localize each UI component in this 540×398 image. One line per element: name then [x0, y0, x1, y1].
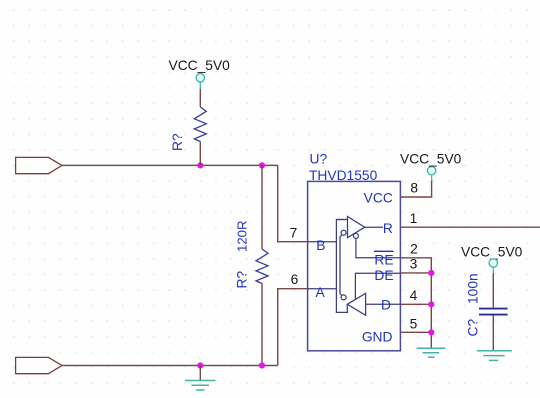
enable bubble on driver	[341, 295, 346, 300]
wire resistor R? to top net	[199, 142, 201, 166]
internal rail 1 (B/A bus)	[336, 220, 347, 313]
ground symbol below capacitor	[477, 351, 512, 361]
svg-text:THVD1550: THVD1550	[309, 168, 378, 183]
svg-text:VCC_5V0: VCC_5V0	[400, 152, 462, 167]
driver buffer triangle	[347, 293, 365, 315]
RE internal line	[356, 238, 401, 257]
enable bubble on receiver	[353, 233, 358, 238]
pin 4 wire (D)	[400, 303, 431, 305]
svg-text:VCC_5V0: VCC_5V0	[461, 245, 523, 260]
svg-text:B: B	[316, 238, 325, 253]
power port VCC_5V0 at capacitor	[489, 259, 497, 273]
power port VCC_5V0 at pin 8	[427, 167, 435, 182]
resistor R? 120R	[256, 249, 268, 284]
svg-text:100n: 100n	[466, 273, 481, 304]
DE internal line	[355, 273, 400, 299]
internal rail 2 (enable bus)	[340, 234, 342, 295]
svg-text:5: 5	[410, 317, 418, 332]
svg-text:R?: R?	[235, 271, 250, 289]
pin 5 wire (GND)	[400, 331, 431, 333]
svg-text:120R: 120R	[235, 220, 250, 252]
svg-text:D: D	[381, 298, 391, 313]
svg-text:R?: R?	[170, 133, 185, 151]
wire vertical drop to pin 7	[278, 165, 308, 241]
pin 8 wire	[400, 180, 431, 197]
svg-text:4: 4	[410, 288, 418, 303]
junction at 120R top / top wire	[259, 162, 265, 168]
svg-text:VCC: VCC	[364, 191, 393, 206]
svg-text:U?: U?	[310, 152, 328, 167]
junction pin 4 / rail	[428, 301, 434, 307]
junction at R? pull-up / top wire	[197, 162, 203, 168]
svg-text:GND: GND	[362, 330, 393, 345]
connector P1 top-left	[16, 157, 62, 173]
svg-text:A: A	[316, 285, 326, 300]
junction at 120R bottom / bottom wire	[259, 362, 265, 368]
svg-text:2: 2	[410, 242, 418, 257]
IC U? THVD1550 body	[308, 181, 401, 350]
svg-text:RE: RE	[374, 253, 393, 268]
wire bottom net from P2	[62, 365, 278, 367]
svg-text:8: 8	[410, 181, 418, 196]
receiver buffer triangle	[348, 217, 365, 238]
wire 120R lower lead	[261, 284, 263, 366]
connector P2 bottom-left	[16, 357, 62, 373]
power port VCC_5V0 top	[196, 74, 204, 89]
receiver input line	[336, 219, 347, 221]
RE overline	[374, 250, 394, 252]
junction at ground stem / bottom wire	[197, 362, 203, 368]
bubble below receiver base	[341, 230, 346, 235]
pin 1 wire (R output) to edge	[400, 226, 540, 228]
svg-text:1: 1	[410, 211, 418, 226]
svg-text:7: 7	[290, 226, 298, 241]
junction pin 5 / rail	[428, 329, 434, 335]
pin 2 wire (RE)	[400, 258, 431, 348]
pin A internal line	[308, 288, 337, 290]
wire top net from P1 to corner	[62, 164, 278, 166]
ground stem bottom middle	[199, 366, 201, 381]
svg-text:C?: C?	[466, 319, 481, 337]
resistor R? (pull-up)	[194, 107, 206, 142]
wire 120R upper lead	[261, 165, 263, 249]
ground symbol below IC rail	[417, 348, 446, 357]
capacitor C? plates	[479, 309, 508, 315]
ground symbol bottom middle	[185, 381, 216, 391]
svg-text:DE: DE	[374, 268, 393, 283]
wire capacitor to ground	[492, 316, 494, 351]
svg-text:R: R	[383, 221, 393, 236]
wire vertical rise to pin 6	[278, 289, 308, 366]
junction pin 3 / rail	[428, 270, 434, 276]
svg-text:VCC_5V0: VCC_5V0	[169, 58, 231, 73]
svg-text:3: 3	[410, 257, 418, 272]
wire power to capacitor	[492, 273, 494, 308]
receiver output line to R	[365, 226, 383, 228]
wire power to resistor R?	[199, 89, 201, 107]
svg-text:6: 6	[291, 272, 299, 287]
pin B internal line	[308, 241, 337, 243]
driver input line from D	[366, 303, 401, 305]
pin 3 wire (DE)	[400, 272, 431, 274]
